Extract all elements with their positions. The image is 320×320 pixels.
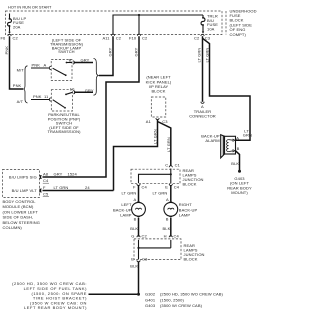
svg-text:ALARM: ALARM [205,138,219,143]
svg-text:LT GRN: LT GRN [152,129,157,144]
svg-text:20A: 20A [13,24,21,29]
ground G403 (alarm) [227,170,252,195]
svg-text:BLOCK: BLOCK [184,257,198,262]
brace merge [94,59,99,96]
svg-text:LT GRN: LT GRN [204,48,209,63]
svg-text:(2500 HD, 3500 WO CREW CAB): (2500 HD, 3500 WO CREW CAB) [160,292,224,297]
svg-text:A: A [236,135,239,140]
svg-text:10A: 10A [207,26,215,31]
svg-text:PNK: PNK [4,46,9,55]
svg-text:B/U LMPS SIG: B/U LMPS SIG [9,175,37,180]
svg-text:LT GRN: LT GRN [122,191,137,196]
svg-text:A: A [44,63,47,68]
wire LT GRN to right back-up lamp [153,185,171,202]
svg-text:GRN: GRN [243,133,252,138]
svg-text:PNK: PNK [33,94,42,99]
svg-text:M/T: M/T [17,67,25,72]
connector A1 C3 [146,118,168,124]
svg-text:B: B [166,217,169,222]
PNP switch label [47,112,81,134]
svg-text:G401: G401 [145,297,156,302]
PNP switch (A/T) [49,90,72,111]
svg-text:PNK: PNK [13,83,22,88]
svg-text:C4: C4 [174,185,180,190]
wire BLK left lamp [130,217,138,237]
wire GRY merged to A11 [99,36,113,75]
svg-text:LT GRN: LT GRN [197,48,202,63]
svg-text:C5: C5 [43,192,49,197]
connector C C1 [165,163,180,168]
svg-text:BACK-UP: BACK-UP [113,207,132,212]
svg-text:LAMP: LAMP [179,213,191,218]
svg-text:F10: F10 [129,36,137,41]
svg-text:C2: C2 [13,35,19,40]
rear lamps junction block (top) [131,168,204,187]
junction block 2 internal wires [137,240,170,259]
trailer connector A [189,102,216,119]
connector F10 C2 [129,34,148,40]
wire PNK to PNP switch (A/T branch) [31,94,50,100]
svg-text:C4: C4 [43,178,49,183]
svg-text:11: 11 [44,94,49,99]
I/P relay block [151,97,166,117]
svg-text:B/U LMP VLT: B/U LMP VLT [12,188,38,193]
BCM row1 labels A8 GRY 1524 C4 [43,171,78,183]
wire BLK right lamp [163,217,171,237]
wire PNK vertical [4,36,23,89]
svg-text:E: E [131,256,134,261]
connector A11 C2 [103,34,122,40]
svg-text:TRANSMISSION): TRANSMISSION) [47,129,81,134]
svg-text:A1: A1 [146,119,152,124]
back-up alarm [201,134,239,158]
wire LT GRN to trailer connector [197,36,203,102]
svg-text:C2: C2 [142,36,148,41]
connector E C4 [165,184,180,190]
svg-text:H: H [164,234,167,239]
svg-text:BLOCK: BLOCK [183,182,197,187]
svg-text:LEFT REAR BODY MOUNT): LEFT REAR BODY MOUNT) [24,305,87,310]
svg-text:B: B [134,217,137,222]
svg-text:C2: C2 [116,36,122,41]
connector C2 C3 [194,34,211,40]
svg-text:LT GRN: LT GRN [166,137,171,152]
svg-text:LEFT: LEFT [121,202,132,207]
svg-text:BLK: BLK [163,226,171,231]
switch output 10 GRY [70,87,94,94]
svg-text:COMPT): COMPT) [230,32,247,37]
left back-up lamp [113,202,145,218]
underhood fuse block dashed box [6,11,227,35]
svg-text:C1: C1 [175,163,181,168]
svg-text:24: 24 [85,185,90,190]
junction block internal wires [139,169,172,184]
svg-text:CONNECTOR: CONNECTOR [189,114,216,119]
wire PNK to backup switch (M/T branch) [31,63,49,68]
svg-text:A/T: A/T [17,99,24,104]
svg-text:B: B [69,58,72,63]
svg-text:COLUMN): COLUMN) [3,225,23,230]
ground labels [145,292,224,308]
svg-text:C4: C4 [174,234,180,239]
svg-text:SWITCH: SWITCH [58,49,74,54]
underhood fuse block label [230,8,257,37]
connector F C4 [133,184,147,190]
connector H C4 [164,234,180,239]
svg-text:G403: G403 [145,303,156,308]
svg-text:C2: C2 [142,234,148,239]
svg-text:RIGHT: RIGHT [179,202,192,207]
svg-text:BACK-UP: BACK-UP [179,207,198,212]
svg-text:C2: C2 [194,35,200,40]
connector E C3 [131,256,148,261]
right back-up lamp [164,202,198,218]
svg-text:HOT IN RUN OR START: HOT IN RUN OR START [8,5,52,10]
svg-text:GRY: GRY [134,47,139,56]
svg-text:PNK: PNK [32,63,41,68]
svg-text:BLK: BLK [231,161,239,166]
rear lamps junction block (bottom) [134,239,205,262]
connector G C2 [131,234,147,239]
wire LT GRN 24 BCM row2 [43,185,114,197]
node HOT IN RUN OR START [8,5,52,10]
svg-text:(1500, 2500): (1500, 2500) [160,297,184,302]
I/P relay block label [146,75,172,94]
svg-text:B: B [237,146,240,151]
svg-text:BLOCK: BLOCK [151,89,165,94]
svg-text:BLK: BLK [130,226,138,231]
fuse TRLR B/U 10A [201,14,218,34]
wire GRY F10 to BCM [43,36,140,177]
internal bus in fuse block [113,14,203,34]
wire BLK from alarm to ground [231,151,239,170]
svg-text:1524: 1524 [68,171,78,176]
svg-text:E: E [165,185,168,190]
wire BLK to ground [130,261,138,293]
svg-text:GRY: GRY [54,171,63,176]
svg-text:MOUNT): MOUNT) [231,190,248,195]
svg-text:C: C [165,163,168,168]
svg-text:F6: F6 [1,35,7,40]
svg-text:C3: C3 [142,256,148,261]
wire LT GRN relay to junction block [158,122,171,166]
fuse B/U LP 20A [8,14,27,35]
backup lamp switch (M/T) [49,59,72,80]
svg-text:C3: C3 [205,35,211,40]
wire LT GRN relay to BCM [114,119,158,190]
svg-text:LT GRN: LT GRN [153,191,168,196]
svg-text:A8: A8 [43,171,49,176]
svg-text:C4: C4 [142,185,148,190]
BCM box [3,170,42,198]
svg-text:G: G [131,234,134,239]
switch output B GRY [69,57,93,64]
ground location note [12,281,87,310]
svg-text:10: 10 [70,87,75,92]
wire LT GRN to left back-up lamp [122,185,139,202]
brace split M/T A/T [17,66,28,104]
svg-text:A: A [134,197,137,202]
ground junction [89,293,141,296]
svg-text:A11: A11 [103,36,111,41]
connector F6 C2 [1,34,19,40]
wire LT GRN to back-up alarm [203,38,253,140]
svg-text:GRY: GRY [81,57,90,62]
svg-text:G302: G302 [145,292,156,297]
svg-text:LAMP: LAMP [120,213,132,218]
BCM label [3,199,40,230]
backup lamp switch label [50,38,84,54]
svg-text:C3: C3 [162,119,168,124]
svg-text:A: A [166,197,169,202]
svg-text:LT GRN: LT GRN [54,185,69,190]
svg-text:BLK: BLK [130,263,138,268]
svg-text:(3500 W/ CREW CAB): (3500 W/ CREW CAB) [160,303,203,308]
svg-text:GRY: GRY [108,47,113,56]
